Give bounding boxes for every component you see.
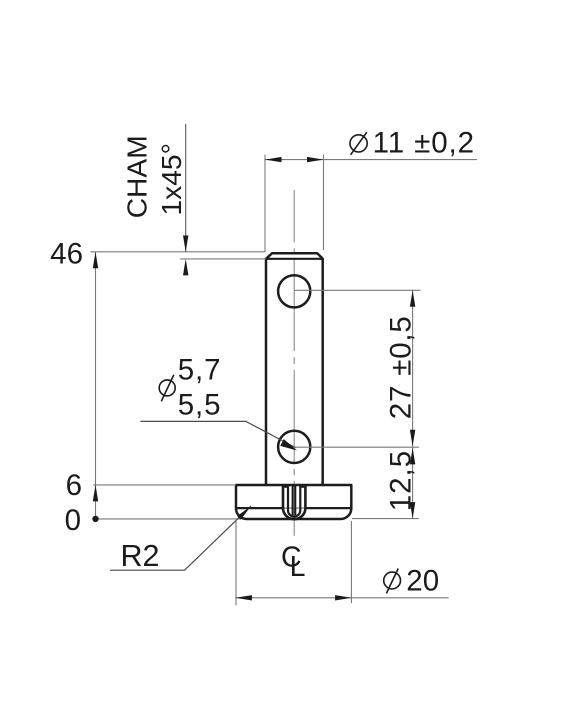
dimension Ø20 line: [235, 597, 448, 599]
hole size leader arrow: [280, 439, 297, 450]
svg-text:CHAM: CHAM: [121, 135, 153, 218]
bottom extension line right: [352, 518, 419, 520]
svg-text:5,7: 5,7: [178, 353, 222, 386]
ordinate vertical line: [95, 252, 97, 519]
dimension Ø20 arrows: [235, 595, 252, 600]
ordinate dimension line 0: [93, 518, 240, 520]
R2 leader arrow: [237, 506, 251, 520]
CHAM leader line: [185, 124, 187, 252]
upper hole center leader: [294, 289, 420, 291]
head slot lip ticks: [283, 486, 289, 488]
centerline (vertical axis): [293, 190, 295, 536]
dimension Ø20 diameter symbol: [384, 569, 401, 594]
CHAM lower arrow: [183, 259, 188, 276]
svg-text:46: 46: [50, 237, 83, 270]
CHAM upper arrow: [183, 236, 188, 252]
ordinate 46 arrow: [93, 252, 98, 268]
head slot center slit: [292, 486, 294, 515]
ordinate dimension line 6: [93, 484, 236, 486]
dimension Ø11 diameter symbol: [350, 132, 367, 155]
centerline symbol: [281, 542, 305, 583]
dimension 27 arrows: [410, 290, 415, 307]
dimension 12,5 arrows: [410, 448, 415, 465]
chamfer bottom edge: [266, 258, 323, 260]
ordinate dimension line 46: [91, 251, 266, 253]
dimension Ø11 extension lines: [264, 155, 266, 252]
head fillet tangent line: [236, 507, 283, 509]
svg-text:27 ±0,5: 27 ±0,5: [385, 315, 418, 419]
dimension Ø20 extension lines: [235, 521, 237, 606]
upper hole: [278, 275, 310, 307]
svg-text:L: L: [290, 551, 306, 583]
ordinate 6 arrow: [93, 485, 98, 502]
head outline: [236, 485, 351, 519]
dimension Ø11 arrows: [265, 157, 282, 162]
R2 leader line: [110, 506, 251, 570]
hole size leader line: [141, 421, 297, 448]
head slot inner wall: [288, 487, 300, 517]
head fillet tangent line across slot: [283, 507, 305, 509]
pin body outline: [266, 253, 323, 485]
head slot outer wall: [283, 486, 305, 520]
hole size diameter symbol: [159, 375, 175, 402]
chamfer extension line: [180, 258, 266, 260]
lower hole center leader: [294, 446, 419, 448]
svg-text:0: 0: [65, 504, 81, 537]
svg-text:1x45°: 1x45°: [155, 143, 187, 215]
svg-text:12,5: 12,5: [385, 450, 418, 511]
lower hole: [278, 431, 310, 463]
svg-text:R2: R2: [121, 539, 160, 573]
svg-text:11 ±0,2: 11 ±0,2: [373, 127, 475, 160]
svg-text:20: 20: [406, 564, 439, 597]
dimension Ø11 line: [265, 159, 477, 161]
ordinate 0 origin dot: [92, 516, 98, 522]
dimension 27/12,5 vertical line: [412, 290, 414, 519]
svg-text:5,5: 5,5: [178, 389, 222, 422]
svg-text:6: 6: [66, 469, 82, 502]
